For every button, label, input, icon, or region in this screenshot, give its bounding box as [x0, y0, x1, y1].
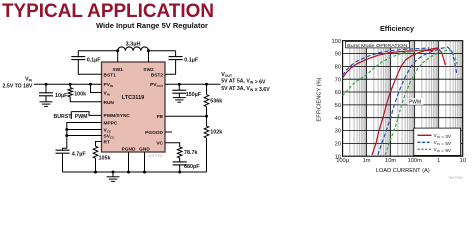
svg-text:80: 80 — [335, 64, 341, 70]
svg-text:PWM: PWM — [75, 114, 88, 120]
svg-text:100m: 100m — [408, 158, 422, 164]
svg-text:78.7k: 78.7k — [184, 150, 198, 156]
svg-text:BST1: BST1 — [104, 72, 117, 78]
svg-text:105k: 105k — [99, 155, 111, 161]
svg-text:2.5V TO 18V: 2.5V TO 18V — [3, 84, 33, 90]
svg-text:3119 TA01a: 3119 TA01a — [149, 154, 163, 158]
svg-text:Wide Input Range 5V Regulator: Wide Input Range 5V Regulator — [96, 21, 208, 30]
svg-text:3119 TA01b: 3119 TA01b — [448, 175, 463, 179]
svg-text:GND: GND — [139, 146, 150, 152]
svg-text:PWM/SYNC: PWM/SYNC — [104, 113, 131, 119]
svg-text:LTC3119: LTC3119 — [122, 95, 145, 101]
svg-text:10µF: 10µF — [55, 93, 68, 99]
svg-text:100: 100 — [332, 39, 342, 45]
svg-text:4.7µF: 4.7µF — [72, 151, 87, 157]
svg-text:70: 70 — [335, 77, 341, 83]
svg-text:30: 30 — [335, 129, 341, 135]
svg-text:VIN = 3V: VIN = 3V — [434, 133, 452, 140]
svg-text:100k: 100k — [74, 91, 86, 97]
svg-text:VIN = 9V: VIN = 9V — [434, 147, 452, 154]
svg-text:PGOOD: PGOOD — [145, 130, 163, 136]
svg-text:40: 40 — [335, 116, 341, 122]
svg-text:1m: 1m — [363, 158, 371, 164]
svg-text:536k: 536k — [210, 98, 222, 104]
svg-text:BST2: BST2 — [151, 72, 164, 78]
svg-text:680pF: 680pF — [184, 164, 200, 170]
svg-text:Burst Mode OPERATION: Burst Mode OPERATION — [347, 43, 407, 48]
svg-text:5V AT 5A, VIN > 6V: 5V AT 5A, VIN > 6V — [221, 79, 266, 86]
svg-text:3.3µH: 3.3µH — [125, 41, 140, 47]
svg-text:BURST: BURST — [54, 114, 73, 120]
svg-text:Efficiency: Efficiency — [380, 24, 415, 33]
svg-text:102k: 102k — [210, 129, 222, 135]
svg-text:90: 90 — [335, 52, 341, 58]
svg-text:VIN = 5V: VIN = 5V — [434, 140, 452, 147]
svg-text:RT: RT — [104, 139, 110, 145]
svg-text:100µ: 100µ — [336, 158, 349, 164]
svg-text:MPPC: MPPC — [104, 120, 118, 126]
svg-text:PWM: PWM — [409, 99, 421, 105]
svg-text:TYPICAL APPLICATION: TYPICAL APPLICATION — [2, 0, 214, 22]
svg-text:FB: FB — [157, 114, 164, 120]
svg-text:0.1µF: 0.1µF — [184, 58, 199, 64]
svg-text:SW2: SW2 — [143, 67, 154, 73]
svg-text:VC: VC — [156, 141, 163, 147]
svg-text:RUN: RUN — [104, 100, 115, 106]
svg-text:10m: 10m — [385, 158, 396, 164]
svg-text:LOAD CURRENT (A): LOAD CURRENT (A) — [376, 168, 430, 174]
svg-text:50: 50 — [335, 103, 341, 109]
svg-text:10: 10 — [460, 158, 466, 164]
svg-text:SW1: SW1 — [112, 67, 123, 73]
svg-text:EFFICIENCY (%): EFFICIENCY (%) — [317, 77, 323, 121]
svg-text:60: 60 — [335, 90, 341, 96]
svg-text:20: 20 — [335, 141, 341, 147]
svg-text:150µF: 150µF — [186, 92, 202, 98]
svg-text:5V AT 3A, VIN ≥ 3.6V: 5V AT 3A, VIN ≥ 3.6V — [221, 86, 270, 93]
svg-text:PGND: PGND — [122, 146, 136, 152]
svg-text:1: 1 — [437, 158, 440, 164]
svg-text:0.1µF: 0.1µF — [87, 58, 102, 64]
